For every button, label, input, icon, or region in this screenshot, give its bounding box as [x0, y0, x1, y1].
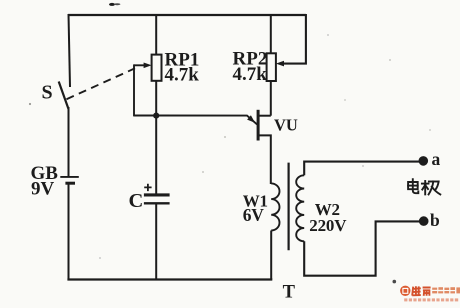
- wire RP2 bottom stem to UJT base2: [270, 81, 272, 116]
- smudge mark top: [109, 3, 120, 6]
- battery GB negative plate: [65, 182, 75, 185]
- terminal a dot: [419, 156, 429, 166]
- transformer winding W1: [271, 183, 279, 230]
- wire junction to UJT emitter: [156, 116, 257, 125]
- UJT base2 lead: [259, 115, 271, 117]
- svg-text:4.7k: 4.7k: [233, 64, 268, 85]
- wire W1 bottom to rail: [270, 231, 272, 280]
- capacitor C plus sign: [144, 184, 151, 191]
- RP1 wiper arrow: [134, 64, 145, 66]
- svg-text:b: b: [430, 210, 440, 230]
- UJT emitter arrowhead: [247, 115, 255, 123]
- wire W2 bottom loop to terminal b: [304, 221, 422, 275]
- wire RP2 top stem: [270, 15, 272, 53]
- resistor RP2 body: [267, 53, 276, 81]
- wire left rail lower (switch to battery): [68, 107, 70, 176]
- capacitor C top plate: [144, 193, 170, 196]
- wire battery to bottom rail: [68, 185, 70, 281]
- svg-text:4.7k: 4.7k: [165, 65, 200, 86]
- node junction dot: [153, 113, 159, 119]
- dashed mechanical link switch-to-RP1: [67, 68, 136, 99]
- wire RP1 bottom stem to capacitor: [155, 81, 157, 194]
- svg-text:T: T: [283, 283, 296, 303]
- svg-text:6V: 6V: [243, 205, 264, 225]
- transformer winding W2: [296, 175, 304, 241]
- wire top rail: [68, 14, 306, 16]
- 电: [408, 182, 418, 189]
- UJT base1 lead: [259, 135, 271, 184]
- svg-text:9V: 9V: [31, 179, 55, 200]
- wire RP1 wiper down leg: [133, 64, 135, 116]
- transistor VU (UJT) base bar: [257, 110, 260, 141]
- switch S blade: [59, 82, 69, 110]
- wire capacitor to bottom rail: [155, 203, 157, 279]
- terminal b dot: [419, 216, 429, 226]
- watermark logo (red) bottom right: [400, 286, 460, 302]
- wire bottom rail: [67, 278, 272, 280]
- svg-text:220V: 220V: [309, 216, 347, 235]
- svg-text:S: S: [42, 82, 53, 104]
- resistor RP1 body: [152, 55, 162, 81]
- battery GB positive plate: [60, 176, 79, 178]
- capacitor C bottom plate: [144, 202, 170, 204]
- transformer core: [288, 163, 290, 251]
- RP2 wiper arrowhead: [276, 61, 284, 67]
- 极: [424, 181, 426, 194]
- svg-text:C: C: [129, 190, 144, 212]
- svg-text:a: a: [432, 149, 441, 169]
- label 电极 (electrode) drawn glyphs: [408, 179, 440, 194]
- wire RP1 wiper to junction: [134, 115, 156, 117]
- wire left rail upper: [69, 14, 71, 87]
- wire W2 top to terminal a: [304, 162, 421, 176]
- wire RP2 wiper branch from top rail: [283, 14, 306, 64]
- speck marks (scan noise): [29, 34, 431, 283]
- svg-text:VU: VU: [274, 116, 298, 135]
- wire RP1 top stem: [155, 15, 157, 55]
